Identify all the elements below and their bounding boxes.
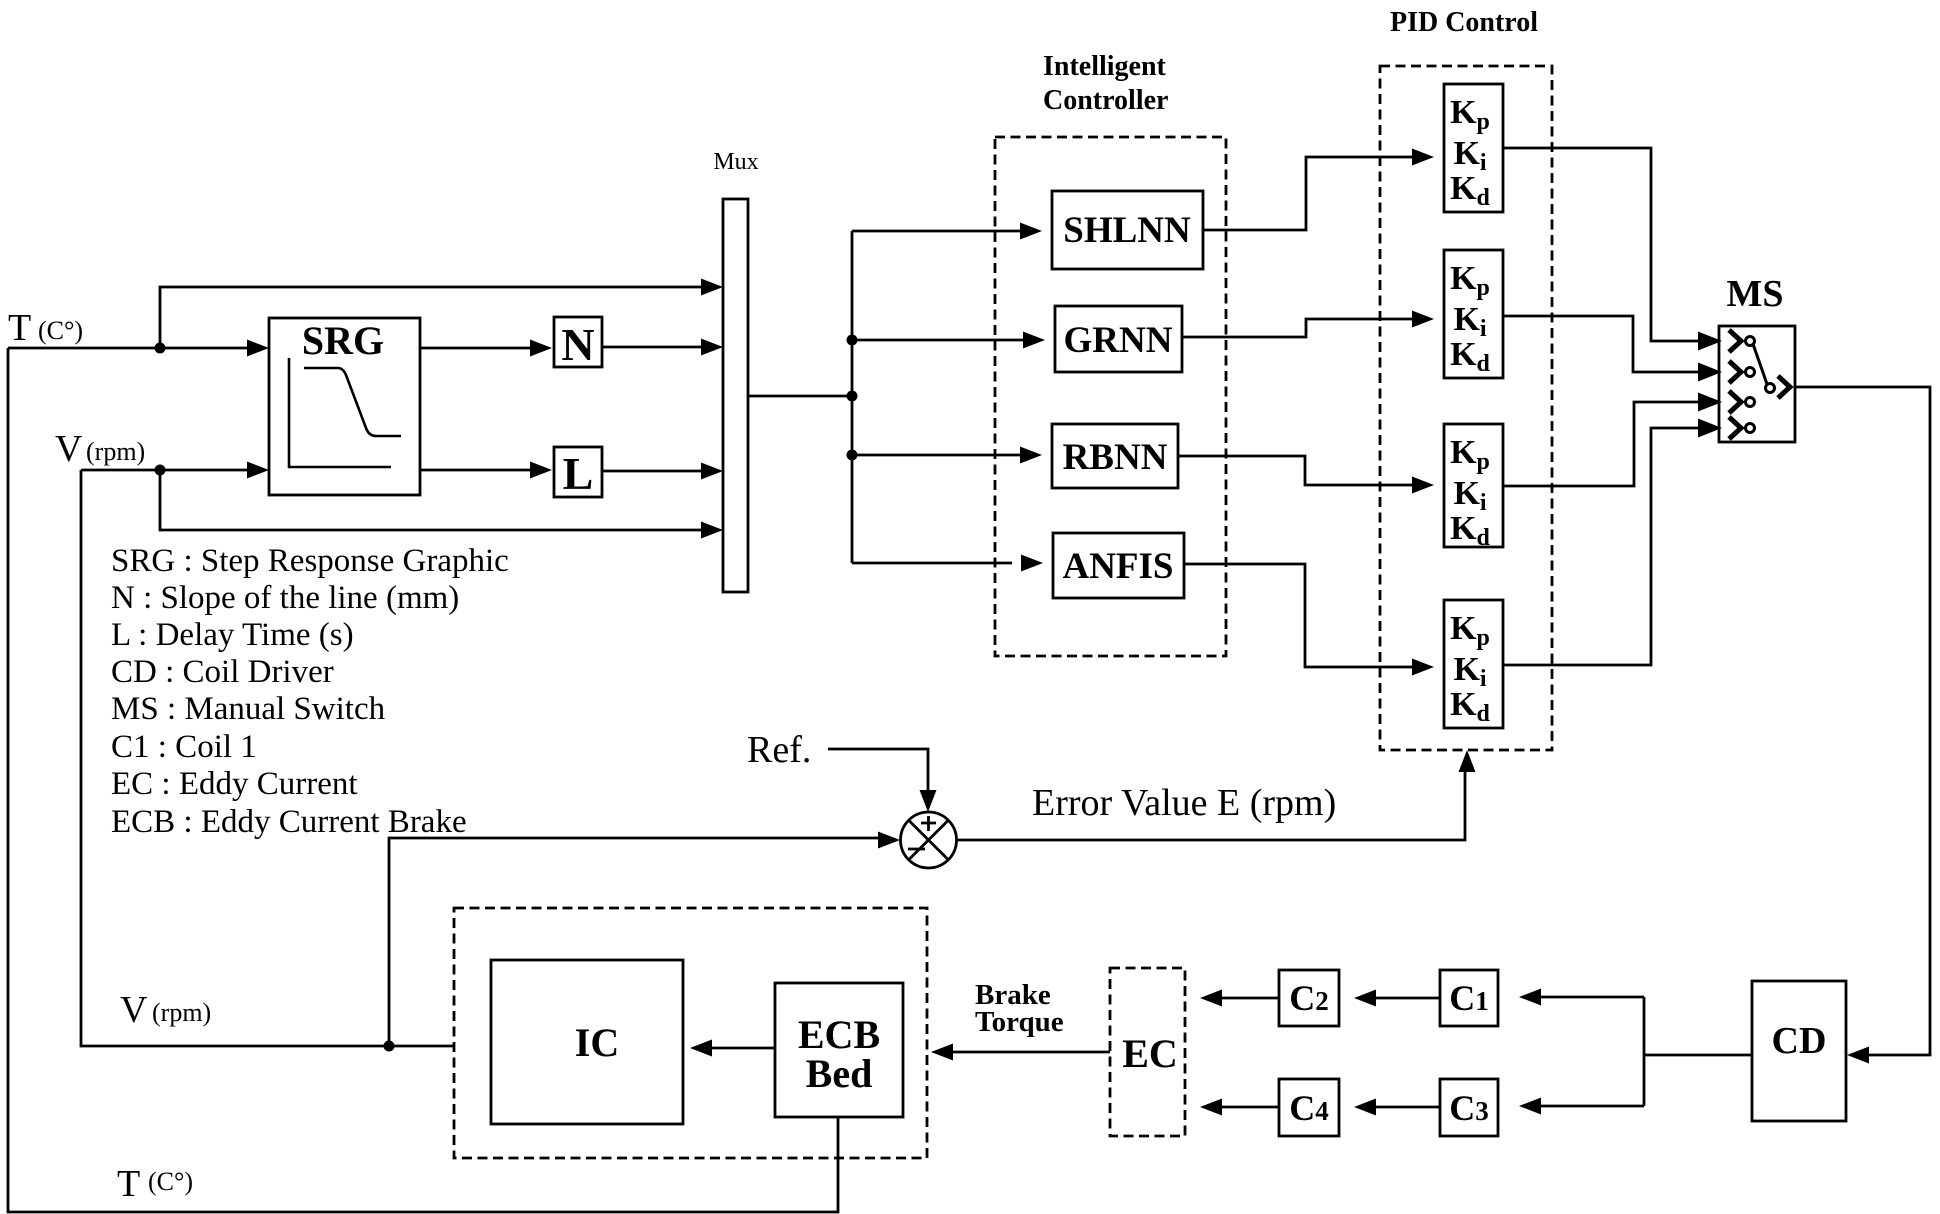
svg-text:ANFIS: ANFIS bbox=[1062, 546, 1173, 587]
svg-text:PID Control: PID Control bbox=[1390, 7, 1538, 38]
svg-text:Error Value E (rpm): Error Value E (rpm) bbox=[1032, 782, 1336, 824]
svg-text:(rpm): (rpm) bbox=[86, 437, 145, 466]
svg-text:RBNN: RBNN bbox=[1063, 437, 1168, 478]
svg-text:Torque: Torque bbox=[975, 1006, 1064, 1038]
svg-text:MS : Manual Switch: MS : Manual Switch bbox=[111, 691, 386, 727]
svg-text:C1 : Coil 1: C1 : Coil 1 bbox=[111, 729, 257, 765]
svg-text:V: V bbox=[120, 989, 148, 1031]
svg-text:EC: EC bbox=[1122, 1031, 1178, 1076]
svg-text:SRG : Step Response Graphic: SRG : Step Response Graphic bbox=[111, 543, 509, 579]
svg-text:SRG: SRG bbox=[302, 318, 384, 363]
svg-text:(C°): (C°) bbox=[38, 316, 83, 345]
svg-text:EC : Eddy Current: EC : Eddy Current bbox=[111, 766, 358, 802]
svg-text:V: V bbox=[55, 428, 83, 470]
svg-text:IC: IC bbox=[575, 1020, 619, 1065]
svg-text:T: T bbox=[117, 1163, 140, 1205]
svg-text:Ref.: Ref. bbox=[747, 729, 811, 771]
svg-text:T: T bbox=[8, 307, 31, 349]
svg-text:L: L bbox=[563, 448, 594, 499]
svg-text:ECB : Eddy Current Brake: ECB : Eddy Current Brake bbox=[111, 804, 467, 840]
svg-text:N : Slope of the line (mm): N : Slope of the line (mm) bbox=[111, 580, 459, 616]
svg-text:Bed: Bed bbox=[806, 1051, 873, 1096]
svg-text:Controller: Controller bbox=[1043, 85, 1168, 116]
svg-text:CD : Coil Driver: CD : Coil Driver bbox=[111, 654, 334, 690]
svg-text:Mux: Mux bbox=[713, 149, 758, 175]
svg-text:CD: CD bbox=[1772, 1020, 1827, 1062]
svg-text:GRNN: GRNN bbox=[1064, 320, 1173, 361]
svg-text:L : Delay Time (s): L : Delay Time (s) bbox=[111, 617, 354, 653]
svg-text:Intelligent: Intelligent bbox=[1043, 51, 1167, 82]
svg-text:MS: MS bbox=[1727, 273, 1784, 315]
svg-text:N: N bbox=[561, 319, 594, 370]
svg-text:(rpm): (rpm) bbox=[152, 998, 211, 1027]
svg-text:(C°): (C°) bbox=[148, 1167, 193, 1196]
svg-text:SHLNN: SHLNN bbox=[1063, 210, 1191, 251]
